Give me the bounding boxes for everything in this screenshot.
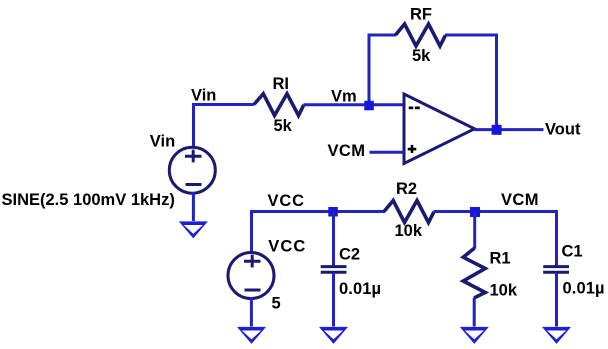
resistor RI <box>254 94 304 116</box>
svg-text:0.01µ: 0.01µ <box>563 279 605 297</box>
ground C1 <box>542 327 571 344</box>
op-amp minus marker <box>409 107 414 110</box>
ground C2 <box>319 327 348 344</box>
svg-text:5k: 5k <box>412 47 431 65</box>
junction Vm <box>364 101 374 111</box>
wire VCC rail left <box>250 210 385 213</box>
voltage source V1 Vin circle <box>169 147 215 193</box>
wire Vm net (RI to op-amp minus input) <box>304 103 405 106</box>
wire R1 to ground <box>473 298 476 327</box>
V2 minus sign <box>245 289 261 292</box>
svg-text:5k: 5k <box>274 117 293 135</box>
voltage source V2 VCC circle <box>228 253 274 299</box>
capacitor C2 <box>321 265 347 268</box>
svg-text:Vin: Vin <box>191 86 216 104</box>
resistor RF <box>396 24 446 46</box>
svg-text:10k: 10k <box>490 281 518 299</box>
V1 minus sign <box>186 183 202 186</box>
V1 plus sign <box>185 155 202 158</box>
V2 plus sign <box>244 260 261 263</box>
wire RF left lead <box>368 34 397 37</box>
svg-text:Vin: Vin <box>150 132 175 150</box>
wire C2 from junction <box>332 212 335 267</box>
svg-text:R1: R1 <box>490 250 511 268</box>
ground R1 <box>460 327 489 344</box>
svg-text:SINE(2.5 100mV 1kHz): SINE(2.5 100mV 1kHz) <box>2 191 175 209</box>
wire Vm up to RF <box>368 34 371 107</box>
junction Vout <box>492 125 502 135</box>
op-amp U1 <box>404 94 475 164</box>
wire R1 from junction <box>473 212 476 249</box>
wire Vin net horizontal <box>192 103 254 106</box>
svg-text:R2: R2 <box>396 180 417 198</box>
ground V1 <box>179 221 208 238</box>
wire Vin net vertical to source <box>192 103 195 148</box>
wire C2 to ground <box>332 273 335 327</box>
resistor R1 <box>463 248 485 298</box>
svg-text:C2: C2 <box>339 246 360 264</box>
svg-text:VCM: VCM <box>328 142 366 160</box>
svg-text:RF: RF <box>410 6 432 24</box>
svg-text:VCC: VCC <box>268 192 305 210</box>
svg-text:10k: 10k <box>395 222 423 240</box>
wire VCM to op-amp plus input <box>370 151 405 154</box>
wire V2 to ground <box>250 297 253 327</box>
wire op-amp output <box>474 128 544 131</box>
junction VCM R1 <box>470 207 480 217</box>
svg-text:0.01µ: 0.01µ <box>339 280 381 298</box>
wire VCM rail and corner down to C1 <box>434 212 557 267</box>
svg-text:VCM: VCM <box>501 191 539 209</box>
svg-text:5: 5 <box>272 294 281 312</box>
wire V1 to ground <box>192 192 195 221</box>
svg-text:C1: C1 <box>562 243 583 261</box>
wire RF right down to output <box>445 35 497 130</box>
svg-text:Vm: Vm <box>331 87 357 105</box>
wire C1 to ground <box>555 273 558 327</box>
junction VCC C2 <box>328 207 338 217</box>
resistor R2 <box>384 201 434 223</box>
op-amp plus marker <box>408 148 417 151</box>
svg-text:Vout: Vout <box>545 120 581 138</box>
svg-text:RI: RI <box>273 75 290 93</box>
wire VCC rail down to source V2 <box>250 210 253 254</box>
ground V2 <box>237 327 266 344</box>
svg-text:VCC: VCC <box>268 238 305 256</box>
capacitor C1 <box>543 265 569 268</box>
